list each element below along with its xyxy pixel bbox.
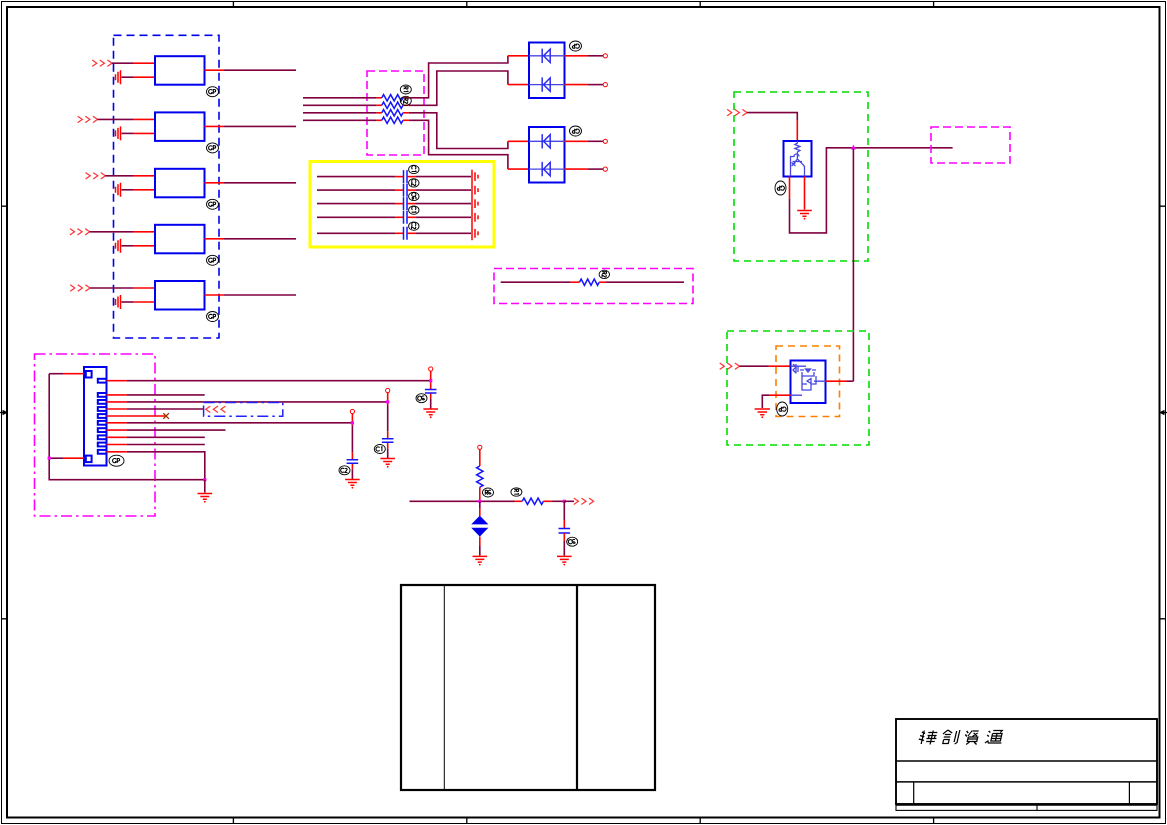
label C7 [374, 445, 385, 454]
open terminal C8 [350, 409, 354, 413]
wire J1 bottom-left pin [49, 457, 84, 459]
wire ground-to-box row 1 [122, 76, 156, 78]
wire out of resistor R4 [403, 119, 409, 121]
label D2 [570, 126, 582, 136]
resistor R4 [382, 117, 403, 123]
wire J1 top-left pin [49, 373, 84, 375]
wire input row 5 [90, 287, 155, 289]
ground DZ1 [473, 556, 488, 562]
wire J1 pin 1 [107, 380, 431, 382]
label C9 [567, 537, 578, 546]
capacitor C1 [404, 170, 408, 183]
label R5 [599, 270, 609, 278]
wire C6 vertical [430, 371, 432, 409]
wire J1 pin 10 [107, 452, 205, 480]
wire out of resistor R3 [403, 112, 409, 114]
wire Q1 emitter to ground [804, 177, 806, 210]
wire into resistor R2 [303, 104, 382, 106]
connector J1 pin 5 tab [98, 414, 107, 418]
label C4 [409, 206, 419, 214]
resistor R3 [382, 110, 403, 116]
zone tick marks bottom edge [233, 818, 933, 823]
open terminal D2 out1 [603, 139, 607, 143]
component box U1 [155, 56, 205, 84]
resistor R5 [580, 279, 600, 285]
wire node2 stub to arrows [564, 500, 574, 502]
wire horizontal node [410, 500, 523, 502]
wire J1 pin 7 [107, 429, 226, 431]
TVS diode DZ1 [471, 501, 488, 555]
wire output net to ref box [852, 147, 953, 149]
dashed group box (blue) around U1-U5 [114, 35, 220, 338]
wire C7 vertical [387, 393, 389, 459]
title block outline [896, 719, 1157, 804]
resistor R6 vertical [477, 466, 483, 487]
open terminal D2 out2 [603, 167, 607, 171]
label C6 [416, 394, 427, 403]
wire red stub D1 pin2 [508, 84, 529, 86]
dash-dot ref box (blue) with arrows [204, 403, 283, 417]
capacitor C7 [382, 439, 394, 443]
connector J1 pin 1 tab [98, 379, 107, 383]
label GP U3 [207, 199, 219, 209]
wire node2 down to cap [563, 501, 565, 528]
wire input row 1 [112, 62, 155, 64]
highlight box (yellow) [310, 162, 494, 248]
wire output row 5 [205, 294, 297, 296]
capacitor C3 [404, 197, 408, 210]
wire J1 pin 6 [107, 422, 353, 424]
rotated ground symbol row 2 [116, 126, 121, 140]
connector J1 pin 2 tab [98, 393, 107, 397]
component box U2 [155, 112, 205, 140]
rotated ground symbol row 1 [116, 70, 121, 84]
wire vertical link between stages [852, 149, 854, 382]
wire output row 2 [205, 125, 297, 127]
wire red stub D2 pin2 [508, 168, 529, 170]
rotated ground cap row 5 [475, 229, 478, 238]
wire cap row 5 left [317, 232, 403, 234]
label C3 [409, 192, 419, 200]
wire C8 vertical [351, 414, 353, 480]
wire U6 output [826, 380, 854, 382]
capacitor C5 [404, 227, 408, 240]
connector J1 pin 10 tab [98, 450, 107, 454]
zone tick marks top edge [233, 2, 933, 7]
wire red stub D2 pin1 [508, 140, 529, 142]
dashed part box (magenta) resistor pack [367, 71, 424, 155]
input port arrows row 1 [92, 60, 112, 66]
component box U5 [155, 281, 205, 310]
wire R2 to D1 pin2 [409, 71, 508, 105]
connector J1 pin 9 tab [98, 443, 107, 447]
label Q1 [775, 181, 786, 195]
label C8 [339, 466, 350, 475]
title block row line 2 [896, 781, 1157, 783]
rotated ground cap row 1 [475, 172, 478, 181]
input port arrows U6 [720, 363, 740, 369]
connector J1 pin 4 tab [98, 407, 107, 411]
wire cap row 3 left [317, 203, 403, 205]
label R6 [483, 488, 494, 497]
resistor R1 [382, 95, 403, 101]
company name text (stylized CJK strokes) [918, 730, 1005, 745]
center arrow marker right edge [1159, 410, 1167, 416]
wire cap row 4 right [407, 216, 471, 218]
no-connect X pin 5 [163, 413, 169, 419]
load switch U6 [791, 361, 826, 404]
ground J1 [198, 494, 213, 500]
wire cap row 3 right [407, 203, 471, 205]
wire C9 to ground [563, 533, 565, 556]
rotated ground cap row 2 [475, 186, 478, 195]
capacitor C8 [347, 460, 359, 464]
title block row3 divider a [913, 782, 915, 804]
component box U3 [155, 169, 205, 198]
ground C9 [557, 556, 572, 562]
rotated ground symbol row 4 [116, 239, 121, 253]
wire input row 4 [90, 231, 155, 233]
dashed group box (green) U6 stage [727, 331, 869, 445]
label R pack A [400, 85, 411, 94]
label D1 [570, 41, 582, 51]
wire out of resistor R2 [403, 104, 409, 106]
wire into resistor R1 [303, 97, 382, 99]
wire out of resistor R1 [403, 97, 409, 99]
wire Q1 input [747, 113, 797, 141]
label GP U1 [207, 87, 219, 97]
wire cap row 1 right [407, 176, 471, 178]
title block row line 1 [896, 760, 1157, 762]
wire ground-to-box row 3 [122, 189, 156, 191]
open terminal D1 out2 [603, 83, 607, 87]
label GP U4 [207, 255, 219, 265]
label R7 [511, 488, 522, 496]
input port arrows row 2 [78, 116, 98, 122]
title block bottom strip [896, 805, 1157, 810]
connector J1 pin 8 tab [98, 435, 107, 439]
wire cap row 5 right [407, 232, 471, 234]
wire R3 to D2 pin1 [409, 113, 508, 149]
capacitor C6 [425, 390, 437, 394]
label GP U5 [207, 312, 219, 322]
dashed ref box (magenta) right [931, 127, 1010, 163]
connector J1 pin 3 tab [98, 400, 107, 404]
resistor R2 [382, 102, 403, 108]
wire cap row 1 left [317, 176, 403, 178]
wire J1 pin 3 [107, 401, 388, 403]
wire D1 out2 [565, 84, 604, 86]
junction node2 [563, 500, 566, 503]
wire output row 1 [205, 69, 297, 71]
wire red stub D1 pin1 [508, 55, 529, 57]
junction left rail [48, 457, 51, 460]
ground Q1 [797, 211, 812, 217]
wire J1 pin 4 [107, 408, 204, 410]
dashed part box (magenta) jumper resistor [494, 269, 693, 304]
wire J1 pin 2 [107, 394, 205, 396]
ground U6 [755, 409, 770, 415]
connector J1 pin 6 tab [98, 421, 107, 425]
wire cap row 2 left [317, 189, 403, 191]
label J1 GP [109, 455, 124, 466]
input port arrows row 5 [70, 285, 90, 291]
label C1 [409, 165, 419, 173]
diode pack D2 [529, 127, 565, 183]
wire output row 3 [205, 182, 297, 184]
wire R1 to D1 pin1 [409, 56, 508, 98]
label C2 [409, 179, 419, 187]
wire ground-to-box row 5 [122, 301, 156, 303]
wire output row 4 [205, 238, 297, 240]
dash-dot group box (magenta) connector [35, 354, 156, 516]
wire jumper right [599, 281, 684, 283]
capacitor C4 [404, 211, 408, 224]
wire R6 top [479, 449, 481, 466]
ground C6 [423, 409, 438, 415]
connector J1 pin 7 tab [98, 428, 107, 432]
ground bus bar (red) [471, 170, 473, 241]
junction C6 [429, 379, 432, 382]
wire cap row 2 right [407, 189, 471, 191]
junction bottom rail [203, 478, 206, 481]
wire D2 out2 [565, 168, 604, 170]
wire J1 pin 5 [107, 415, 167, 417]
rotated ground cap row 3 [475, 199, 478, 208]
wire input row 3 [105, 175, 155, 177]
connector J1 body [84, 367, 107, 466]
label C5 [409, 222, 419, 230]
junction node1 [478, 500, 481, 503]
transistor Q1 [784, 141, 812, 177]
capacitor C9 [559, 529, 571, 534]
zone tick marks right edge [1160, 206, 1165, 619]
wire J1 pin 9 [107, 444, 205, 446]
zone tick marks left edge [2, 206, 7, 619]
ground C7 [380, 459, 395, 465]
wire bottom rail to ground [204, 480, 206, 493]
junction C8 [351, 421, 354, 424]
wire D2 out1 [565, 140, 604, 142]
input port arrows row 3 [86, 173, 106, 179]
capacitor C2 [404, 184, 408, 197]
wire left rail vertical [49, 374, 205, 480]
rotated ground symbol row 5 [116, 295, 121, 309]
wire input row 2 [98, 118, 156, 120]
wire D1 out1 [565, 55, 604, 57]
rotated ground cap row 4 [475, 213, 478, 222]
wire jumper left [501, 281, 580, 283]
revision table [401, 585, 655, 790]
open terminal D1 out1 [603, 54, 607, 58]
port arrows left-pointing [206, 406, 226, 412]
wire U6 gnd pin [762, 395, 790, 408]
wire ground-to-box row 4 [122, 245, 156, 247]
dashed group box (green) Q1 stage [734, 92, 868, 261]
ground C8 [345, 480, 360, 486]
resistor R7 [522, 498, 543, 504]
wire cap row 4 left [317, 216, 403, 218]
wire U6 input [740, 365, 791, 367]
wire Q1 collector loop to output net [790, 148, 852, 233]
open terminal C7 [386, 388, 390, 392]
dashed part box (orange) [776, 346, 840, 417]
label R pack B [400, 96, 411, 105]
junction arrow marker [851, 145, 856, 150]
center arrow marker left edge [0, 410, 8, 416]
label GP U2 [207, 143, 219, 153]
open terminal C6 [429, 367, 433, 371]
wire ground-to-box row 2 [122, 132, 156, 134]
component box U4 [155, 225, 205, 254]
wire R6 bottom [479, 487, 481, 501]
wire into resistor R4 [303, 119, 382, 121]
input port arrows Q1 [727, 109, 747, 115]
junction C7 [386, 400, 389, 403]
wire R4 to D2 pin2 [409, 120, 508, 169]
wire J1 pin 8 [107, 436, 205, 438]
wire into resistor R3 [303, 112, 382, 114]
wire R7 right [543, 500, 564, 502]
input port arrows row 4 [70, 229, 90, 235]
rotated ground symbol row 3 [116, 183, 121, 197]
label U6 [777, 402, 788, 416]
title block row3 divider b [1128, 782, 1130, 804]
open terminal top R6 [478, 445, 482, 449]
output port arrows [574, 498, 594, 504]
diode pack D1 [529, 43, 565, 99]
